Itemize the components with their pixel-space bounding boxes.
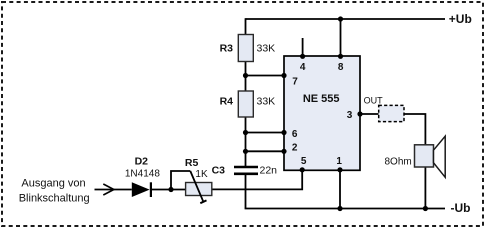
svg-text:+Ub: +Ub (449, 12, 472, 26)
junction R3/R4 node (243, 73, 248, 78)
wire R3 bottom to R4 top (245, 62, 247, 92)
svg-text:C3: C3 (212, 165, 226, 177)
svg-text:-Ub: -Ub (451, 201, 471, 215)
wire node junction 245 to pin 7 (246, 75, 285, 77)
junction node 245 / pin2 wire (243, 149, 248, 154)
svg-text:33K: 33K (257, 43, 276, 55)
wire R4 bottom to C3 top plate (245, 117, 247, 167)
svg-text:R5: R5 (185, 157, 199, 169)
junction pin 1 (337, 167, 342, 172)
svg-text:8: 8 (338, 62, 344, 73)
svg-text:6: 6 (292, 129, 298, 140)
junction pin 6 (281, 130, 286, 135)
svg-text:NE 555: NE 555 (303, 93, 340, 105)
wire diode cathode to R5 (152, 189, 186, 191)
wire OUT box to speaker and -Ub rail (404, 114, 425, 209)
trimmer R5 (186, 171, 212, 203)
svg-text:4: 4 (300, 62, 306, 73)
junction pin 5 (300, 167, 305, 172)
svg-text:33K: 33K (257, 95, 276, 107)
junction pin1/-Ub rail (337, 206, 342, 211)
wire C3 bottom plate to -Ub rail (245, 174, 247, 209)
svg-text:R4: R4 (220, 95, 234, 107)
junction node 245 / pin6 wire (243, 130, 248, 135)
svg-text:3: 3 (347, 110, 353, 121)
junction pin 8 (338, 54, 343, 59)
junction pin8/+Ub rail (338, 16, 343, 21)
wire pin 1 to -Ub rail (339, 170, 341, 209)
wire input lead (95, 189, 132, 191)
op-amp/timer IC U1 NE 555 (284, 56, 360, 170)
wire pin 8 to +Ub rail (340, 19, 342, 56)
wire pin 5 down and left to R5 (212, 170, 302, 189)
svg-text:Ausgang von: Ausgang von (21, 177, 85, 189)
svg-text:D2: D2 (135, 155, 149, 167)
svg-text:Blinkschaltung: Blinkschaltung (19, 192, 90, 204)
speaker LS 8Ohm driver (415, 145, 434, 167)
wire -Ub rail bottom (245, 208, 445, 210)
junction pin 3 (357, 111, 362, 116)
wire node junction 245 to pin 6 (246, 132, 285, 134)
wire pin 3 to OUT box (360, 113, 379, 115)
input arrow head (103, 184, 114, 195)
speaker cone (434, 136, 446, 177)
wire R3 top lead from +Ub rail (245, 18, 247, 34)
svg-text:1K: 1K (195, 169, 208, 180)
junction pin 7 (281, 73, 286, 78)
wire R5 wiper to input node (171, 171, 190, 190)
svg-text:8Ohm: 8Ohm (385, 156, 412, 167)
diode D2 (132, 182, 151, 197)
OUT dashed box (379, 105, 404, 121)
svg-text:5: 5 (301, 156, 307, 167)
svg-text:2: 2 (292, 143, 298, 154)
svg-text:7: 7 (292, 77, 298, 88)
resistor R3 (238, 35, 253, 62)
resistor R4 (238, 91, 253, 117)
svg-text:R3: R3 (220, 43, 234, 55)
svg-text:22n: 22n (260, 165, 278, 177)
wire node junction 245 to pin 2 (246, 150, 285, 152)
junction D2/R5 node (168, 187, 173, 192)
wire +Ub rail top (246, 18, 446, 20)
junction pin 4 (300, 54, 305, 59)
svg-text:1N4148: 1N4148 (125, 169, 160, 180)
capacitor C3 (234, 167, 258, 174)
junction pin 2 (281, 149, 286, 154)
junction speaker/-Ub rail (423, 206, 428, 211)
svg-text:OUT: OUT (364, 95, 384, 105)
svg-text:1: 1 (336, 156, 342, 167)
wire pin 4 open stub (302, 38, 304, 56)
